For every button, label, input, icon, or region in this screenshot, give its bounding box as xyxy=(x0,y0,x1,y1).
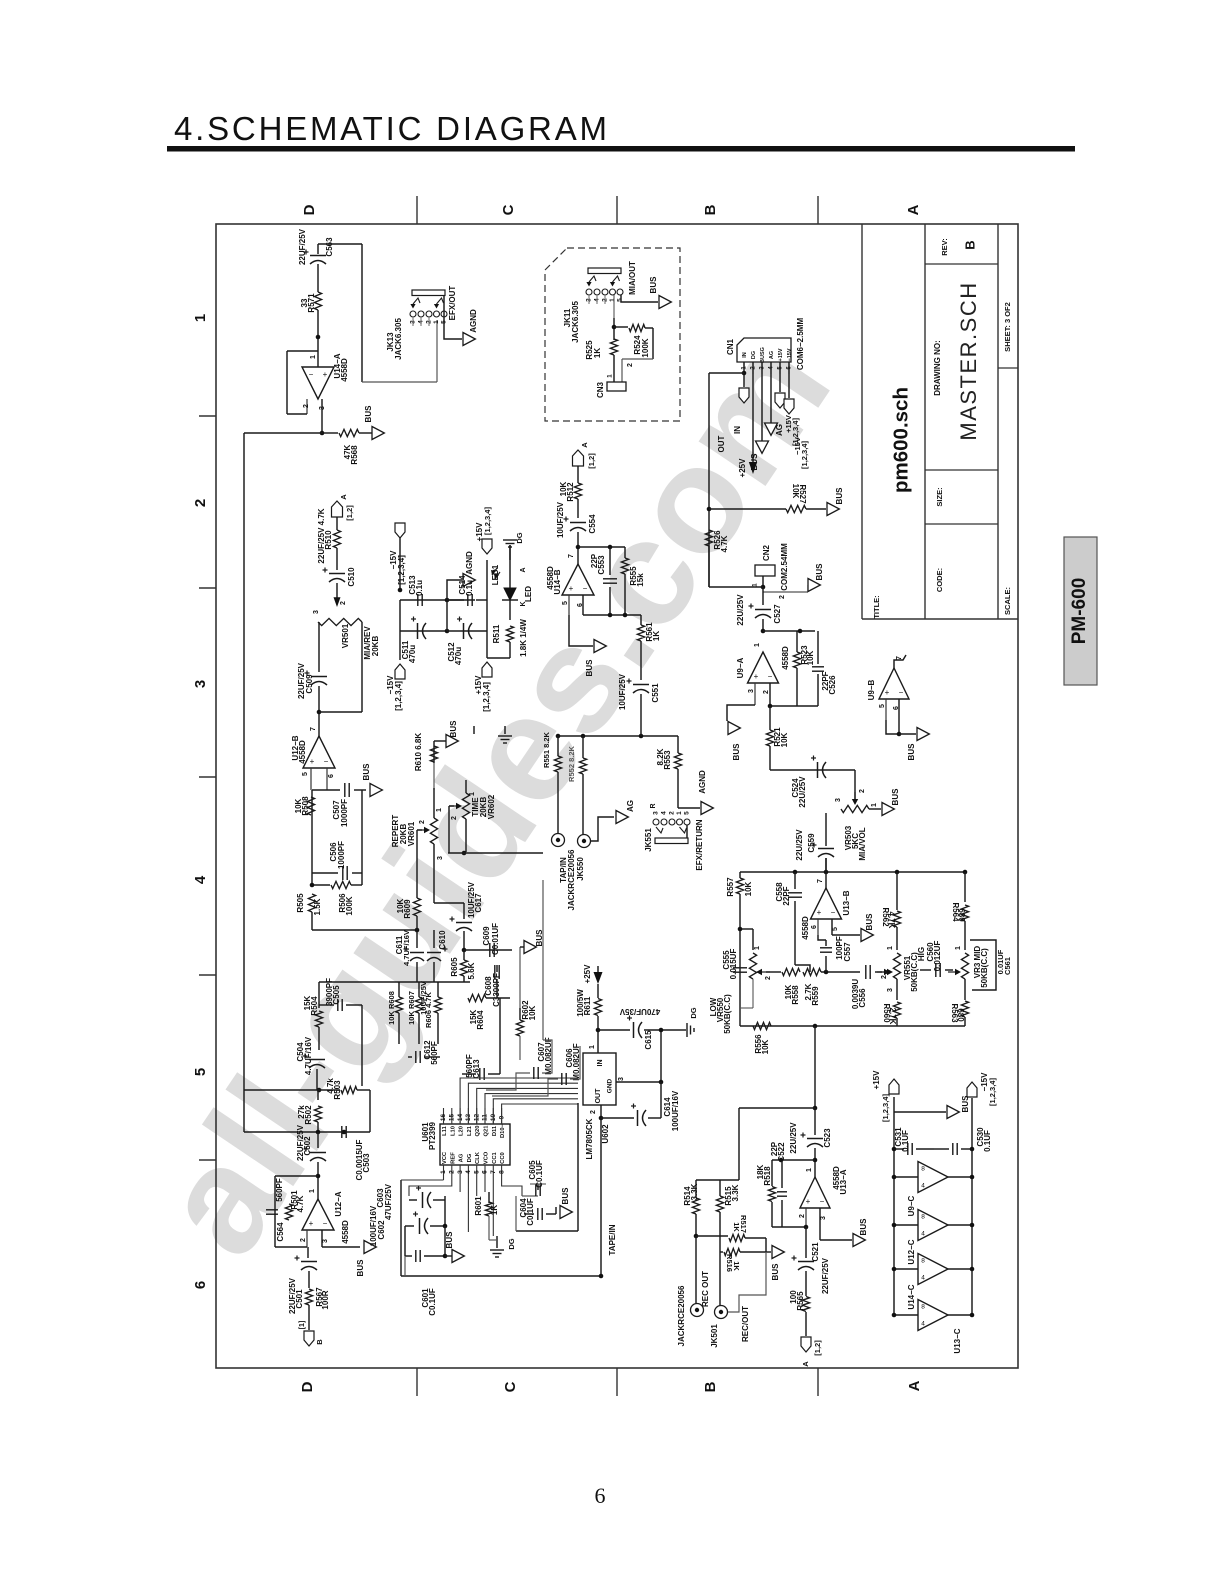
svg-text:3: 3 xyxy=(887,988,894,992)
svg-text:2: 2 xyxy=(340,601,347,605)
svg-text:[1,2,3,4]: [1,2,3,4] xyxy=(988,1078,997,1106)
svg-text:15: 15 xyxy=(449,1114,456,1122)
svg-text:C609: C609 xyxy=(482,926,491,946)
svg-text:R571: R571 xyxy=(307,293,316,313)
svg-text:LED: LED xyxy=(524,586,533,602)
svg-text:20KB: 20KB xyxy=(371,636,380,657)
svg-text:A: A xyxy=(580,442,589,448)
svg-text:+: + xyxy=(310,757,315,766)
svg-text:4.7K: 4.7K xyxy=(887,912,896,929)
svg-text:JK551: JK551 xyxy=(644,828,653,852)
svg-text:[1,2,3,4]: [1,2,3,4] xyxy=(800,441,809,469)
svg-text:C501: C501 xyxy=(295,1289,304,1309)
svg-text:U12−A: U12−A xyxy=(334,1191,343,1216)
svg-text:10K: 10K xyxy=(761,1039,770,1054)
svg-text:R605: R605 xyxy=(450,957,459,977)
svg-text:C610: C610 xyxy=(438,930,447,950)
svg-text:2: 2 xyxy=(765,976,772,980)
svg-text:1000PF: 1000PF xyxy=(340,799,349,827)
svg-text:4.7UF/16V: 4.7UF/16V xyxy=(402,930,411,966)
svg-text:3: 3 xyxy=(319,406,326,410)
svg-text:GND: GND xyxy=(607,1078,614,1093)
svg-text:C564: C564 xyxy=(276,1222,285,1242)
svg-text:SCALE:: SCALE: xyxy=(1003,587,1012,615)
svg-text:PM-600: PM-600 xyxy=(1069,578,1090,645)
svg-text:L20: L20 xyxy=(459,1126,465,1136)
svg-text:15k: 15k xyxy=(636,573,645,587)
svg-text:6: 6 xyxy=(328,774,335,778)
svg-text:REC OUT: REC OUT xyxy=(701,1271,710,1307)
svg-text:3: 3 xyxy=(192,680,209,688)
svg-text:R508: R508 xyxy=(301,796,310,816)
svg-text:0.1u: 0.1u xyxy=(465,580,474,596)
svg-text:CODE:: CODE: xyxy=(935,568,944,592)
svg-text:10UF/25V: 10UF/25V xyxy=(618,673,627,710)
svg-text:5: 5 xyxy=(684,811,691,815)
svg-text:A: A xyxy=(520,567,527,572)
svg-text:4.7K: 4.7K xyxy=(720,535,729,552)
svg-text:4: 4 xyxy=(661,811,668,815)
svg-text:5: 5 xyxy=(473,1170,480,1174)
svg-text:2: 2 xyxy=(419,820,426,824)
svg-text:1: 1 xyxy=(589,1045,596,1049)
svg-text:C522: C522 xyxy=(777,1142,786,1162)
svg-text:100UF/16V: 100UF/16V xyxy=(671,1090,680,1131)
svg-text:[1,2,3,4]: [1,2,3,4] xyxy=(397,555,406,585)
svg-text:6: 6 xyxy=(595,1483,606,1508)
svg-text:AG: AG xyxy=(626,800,635,812)
svg-text:2: 2 xyxy=(763,690,770,694)
svg-text:REV:: REV: xyxy=(940,238,949,256)
svg-text:BUS: BUS xyxy=(859,1218,868,1236)
svg-text:5: 5 xyxy=(302,772,309,776)
svg-text:1: 1 xyxy=(310,355,317,359)
svg-text:MASTER.SCH: MASTER.SCH xyxy=(956,281,981,440)
svg-text:1: 1 xyxy=(436,808,443,812)
svg-text:R512: R512 xyxy=(566,482,575,502)
svg-text:OUT: OUT xyxy=(595,1088,602,1104)
svg-text:1: 1 xyxy=(309,1189,316,1193)
svg-text:6: 6 xyxy=(577,603,584,607)
svg-text:4558D: 4558D xyxy=(340,358,349,382)
svg-text:BUS: BUS xyxy=(445,1231,454,1249)
svg-text:A: A xyxy=(339,494,348,500)
svg-text:R553: R553 xyxy=(663,750,672,770)
svg-text:EFX/OUT: EFX/OUT xyxy=(448,286,457,321)
svg-text:CN2: CN2 xyxy=(762,544,771,561)
svg-text:DG: DG xyxy=(689,1007,698,1018)
svg-text:R527: R527 xyxy=(798,484,807,504)
svg-text:1: 1 xyxy=(440,1170,447,1174)
svg-text:L10: L10 xyxy=(450,1126,456,1136)
svg-text:4: 4 xyxy=(192,875,209,884)
svg-text:BUS: BUS xyxy=(891,788,900,806)
svg-text:U602: U602 xyxy=(601,1124,610,1144)
svg-text:22PF: 22PF xyxy=(782,886,791,905)
svg-text:4: 4 xyxy=(921,1321,925,1328)
svg-text:C: C xyxy=(502,1381,519,1392)
svg-text:560PF: 560PF xyxy=(275,1178,284,1202)
svg-text:−: − xyxy=(831,908,836,917)
svg-text:4558D: 4558D xyxy=(801,916,810,940)
svg-text:MIA/OUT: MIA/OUT xyxy=(628,261,637,295)
svg-text:10K: 10K xyxy=(744,881,753,896)
svg-text:1: 1 xyxy=(871,803,878,807)
svg-text:−15V: −15V xyxy=(787,348,793,361)
svg-text:2: 2 xyxy=(669,811,676,815)
svg-text:7: 7 xyxy=(310,727,317,731)
svg-text:R505: R505 xyxy=(296,893,305,913)
svg-text:R517: R517 xyxy=(739,1215,748,1233)
svg-text:+15V: +15V xyxy=(778,348,784,361)
svg-text:[1,2]: [1,2] xyxy=(587,453,596,469)
svg-text:5: 5 xyxy=(192,1068,209,1076)
svg-text:C0.1UF: C0.1UF xyxy=(535,1160,544,1188)
svg-text:[1,2,3,4]: [1,2,3,4] xyxy=(394,681,403,711)
svg-text:C557: C557 xyxy=(843,942,852,962)
svg-text:8: 8 xyxy=(921,1214,925,1221)
svg-text:3: 3 xyxy=(322,1239,329,1243)
svg-text:1.5K: 1.5K xyxy=(313,898,322,915)
svg-text:2.7K: 2.7K xyxy=(888,1008,897,1025)
svg-text:REF: REF xyxy=(450,1152,456,1164)
svg-text:2: 2 xyxy=(881,975,888,979)
svg-text:6: 6 xyxy=(192,1281,209,1289)
svg-text:R502: R502 xyxy=(304,1105,313,1125)
svg-text:JK501: JK501 xyxy=(710,1324,719,1348)
svg-text:C556: C556 xyxy=(858,988,867,1008)
svg-text:+: + xyxy=(569,584,574,593)
svg-text:8: 8 xyxy=(921,1258,925,1265)
svg-text:DG: DG xyxy=(507,1238,516,1249)
svg-text:DRAWING NO:: DRAWING NO: xyxy=(933,340,942,396)
svg-text:C526: C526 xyxy=(828,675,837,695)
svg-text:OUT: OUT xyxy=(717,435,726,452)
svg-text:U14−C: U14−C xyxy=(907,1284,916,1309)
svg-text:B: B xyxy=(702,204,719,215)
svg-text:5: 5 xyxy=(832,927,839,931)
svg-text:1K: 1K xyxy=(652,631,661,641)
svg-text:B: B xyxy=(962,240,977,249)
svg-text:L11: L11 xyxy=(442,1125,448,1135)
svg-text:10K R607: 10K R607 xyxy=(407,991,416,1025)
svg-text:BUS: BUS xyxy=(449,720,458,738)
svg-text:AGND: AGND xyxy=(469,309,478,333)
svg-text:CC0: CC0 xyxy=(500,1152,506,1164)
svg-text:+25V: +25V xyxy=(738,458,747,478)
svg-text:AG: AG xyxy=(459,1153,465,1162)
svg-text:C: C xyxy=(500,204,517,215)
svg-text:−: − xyxy=(309,370,314,379)
svg-text:+: + xyxy=(309,1219,314,1228)
svg-text:1: 1 xyxy=(192,314,209,322)
svg-text:10K R608: 10K R608 xyxy=(387,991,396,1025)
svg-text:TAPE/IN: TAPE/IN xyxy=(608,1224,617,1255)
svg-text:5: 5 xyxy=(879,704,886,708)
svg-text:A: A xyxy=(906,1380,923,1391)
svg-text:560PF: 560PF xyxy=(430,1041,439,1065)
svg-text:5: 5 xyxy=(617,298,624,302)
svg-text:BUS: BUS xyxy=(835,487,844,505)
svg-text:HIG: HIG xyxy=(917,947,926,961)
svg-text:7: 7 xyxy=(568,554,575,558)
svg-text:BUS: BUS xyxy=(364,405,373,423)
svg-text:470u: 470u xyxy=(408,645,417,663)
svg-text:JACKRCE20056: JACKRCE20056 xyxy=(567,849,576,910)
svg-text:22U/25V: 22U/25V xyxy=(736,594,745,626)
svg-text:C505: C505 xyxy=(332,985,341,1005)
svg-text:7: 7 xyxy=(490,1170,497,1174)
svg-text:D: D xyxy=(301,204,318,215)
svg-text:10K: 10K xyxy=(528,1005,537,1020)
svg-text:BUS: BUS xyxy=(750,453,759,471)
svg-text:AGND: AGND xyxy=(698,770,707,794)
svg-text:2: 2 xyxy=(859,789,866,793)
svg-text:LM7805CK: LM7805CK xyxy=(585,1118,594,1159)
svg-text:2: 2 xyxy=(192,499,209,507)
svg-text:C613: C613 xyxy=(472,1059,481,1079)
svg-text:2: 2 xyxy=(303,404,310,408)
svg-text:50KB(C.C): 50KB(C.C) xyxy=(980,948,989,988)
svg-text:SHEET: 3 OF2: SHEET: 3 OF2 xyxy=(1003,302,1012,352)
svg-text:1: 1 xyxy=(676,811,683,815)
svg-text:[1,2,3,4]: [1,2,3,4] xyxy=(483,507,492,535)
svg-text:0.012UF: 0.012UF xyxy=(933,941,942,972)
svg-text:BUS: BUS xyxy=(561,1187,570,1205)
svg-text:C615: C615 xyxy=(644,1030,653,1050)
svg-text:0.1UF: 0.1UF xyxy=(901,1130,910,1152)
svg-text:4.SCHEMATIC DIAGRAM: 4.SCHEMATIC DIAGRAM xyxy=(174,110,610,147)
svg-text:22UF/25V: 22UF/25V xyxy=(821,1257,830,1294)
svg-text:COM6−2.5MM: COM6−2.5MM xyxy=(796,318,805,371)
svg-text:3: 3 xyxy=(457,1170,464,1174)
svg-text:4: 4 xyxy=(921,1231,925,1238)
svg-text:A: A xyxy=(801,1361,810,1367)
svg-text:AG: AG xyxy=(769,351,775,359)
svg-text:C561: C561 xyxy=(1003,957,1012,975)
svg-text:0.1u: 0.1u xyxy=(415,580,424,596)
svg-text:BUS: BUS xyxy=(771,1263,780,1281)
svg-text:VR501: VR501 xyxy=(341,623,350,648)
svg-text:DG: DG xyxy=(467,1153,473,1162)
svg-text:50KB(C.C): 50KB(C.C) xyxy=(723,994,732,1034)
svg-text:VCO: VCO xyxy=(484,1151,490,1164)
svg-text:JACK6.305: JACK6.305 xyxy=(571,301,580,343)
svg-text:0.1UF: 0.1UF xyxy=(983,1130,992,1152)
svg-text:R504: R504 xyxy=(310,996,319,1016)
svg-text:R557: R557 xyxy=(726,877,735,897)
svg-text:680: 680 xyxy=(956,1008,965,1022)
svg-text:10UF/25V: 10UF/25V xyxy=(556,501,565,538)
svg-text:1: 1 xyxy=(433,320,440,324)
svg-text:AG: AG xyxy=(775,424,784,436)
svg-text:10K: 10K xyxy=(780,732,789,747)
svg-text:3: 3 xyxy=(748,689,755,693)
svg-text:R604: R604 xyxy=(476,1010,485,1030)
svg-text:[1,2,3,4]: [1,2,3,4] xyxy=(482,682,491,712)
svg-text:4558D: 4558D xyxy=(298,740,307,764)
svg-text:R511: R511 xyxy=(492,624,501,643)
svg-text:R610 6.8K: R610 6.8K xyxy=(414,733,423,771)
svg-text:100K: 100K xyxy=(345,896,354,915)
svg-text:+15V: +15V xyxy=(872,1070,881,1090)
svg-text:22U/25V: 22U/25V xyxy=(795,829,804,861)
svg-text:7: 7 xyxy=(896,656,903,660)
svg-text:C523: C523 xyxy=(823,1128,832,1148)
svg-text:COM2.54MM: COM2.54MM xyxy=(780,543,789,591)
svg-text:BUS: BUS xyxy=(815,563,824,581)
svg-text:DG: DG xyxy=(515,532,524,543)
svg-text:JK550: JK550 xyxy=(576,857,585,881)
svg-text:CN3: CN3 xyxy=(596,381,605,398)
svg-text:3.3K: 3.3K xyxy=(690,1183,699,1200)
svg-text:C559: C559 xyxy=(807,833,816,853)
svg-text:470u: 470u xyxy=(454,647,463,665)
svg-text:L21: L21 xyxy=(467,1125,473,1136)
svg-text:D11: D11 xyxy=(492,1125,498,1136)
svg-text:3: 3 xyxy=(618,1077,625,1081)
svg-text:C0.01UF: C0.01UF xyxy=(491,923,500,955)
svg-text:7: 7 xyxy=(817,879,824,883)
svg-text:C0.1UF: C0.1UF xyxy=(428,1288,437,1316)
svg-text:SIZE:: SIZE: xyxy=(935,487,944,506)
svg-text:JACK6.305: JACK6.305 xyxy=(394,318,403,360)
svg-text:BUS: BUS xyxy=(732,743,741,761)
svg-text:6: 6 xyxy=(482,1170,489,1174)
svg-text:R611: R611 xyxy=(583,996,592,1015)
svg-text:TITLE:: TITLE: xyxy=(872,595,881,618)
svg-text:+: + xyxy=(817,908,822,917)
svg-text:BUS: BUS xyxy=(907,743,916,761)
svg-text:C553: C553 xyxy=(597,555,606,575)
svg-text:6: 6 xyxy=(893,706,900,710)
svg-text:22U/25V: 22U/25V xyxy=(789,1122,798,1154)
svg-text:C509: C509 xyxy=(305,674,314,694)
svg-text:−: − xyxy=(899,688,904,697)
svg-text:3: 3 xyxy=(835,798,842,802)
svg-text:R559: R559 xyxy=(811,986,820,1006)
svg-text:B: B xyxy=(702,1381,719,1392)
svg-text:+: + xyxy=(806,1197,811,1206)
svg-text:JACKRCE20056: JACKRCE20056 xyxy=(677,1285,686,1346)
svg-text:1: 1 xyxy=(609,298,616,302)
svg-text:4.7UF/16V: 4.7UF/16V xyxy=(304,1036,313,1075)
svg-text:C554: C554 xyxy=(588,514,597,534)
svg-text:22U/25V: 22U/25V xyxy=(798,776,807,808)
svg-text:2: 2 xyxy=(449,1170,456,1174)
svg-text:1: 1 xyxy=(607,374,614,378)
svg-text:2: 2 xyxy=(451,816,458,820)
svg-text:1K: 1K xyxy=(732,1261,741,1271)
svg-text:R552 8.2K: R552 8.2K xyxy=(567,745,576,781)
svg-text:C521: C521 xyxy=(811,1242,820,1262)
svg-text:+25V: +25V xyxy=(583,964,592,984)
svg-text:R609: R609 xyxy=(403,899,412,919)
svg-text:8: 8 xyxy=(498,1170,505,1174)
svg-text:U9−C: U9−C xyxy=(907,1195,916,1216)
svg-text:BUSG: BUSG xyxy=(760,347,766,363)
svg-text:−: − xyxy=(323,1219,328,1228)
svg-text:2: 2 xyxy=(627,363,634,367)
svg-text:[1,2]: [1,2] xyxy=(813,1340,822,1356)
svg-text:B: B xyxy=(315,1339,324,1345)
svg-text:1: 1 xyxy=(754,643,761,647)
svg-text:1: 1 xyxy=(806,1168,813,1172)
svg-text:IN: IN xyxy=(742,352,748,358)
svg-text:PT2399: PT2399 xyxy=(428,1121,437,1150)
svg-text:BUS: BUS xyxy=(585,659,594,677)
svg-text:6: 6 xyxy=(811,925,818,929)
svg-text:2: 2 xyxy=(779,595,786,599)
svg-text:R558: R558 xyxy=(791,985,800,1005)
svg-text:4: 4 xyxy=(465,1170,472,1174)
svg-text:1: 1 xyxy=(754,946,761,950)
svg-text:1: 1 xyxy=(887,946,894,950)
svg-text:+: + xyxy=(885,688,890,697)
svg-text:U9−B: U9−B xyxy=(867,679,876,700)
svg-text:C551: C551 xyxy=(651,683,660,703)
svg-text:3: 3 xyxy=(820,1216,827,1220)
svg-text:+: + xyxy=(323,370,328,379)
svg-text:2: 2 xyxy=(799,1214,806,1218)
svg-text:C602: C602 xyxy=(377,1220,386,1240)
svg-text:C563: C563 xyxy=(325,237,334,257)
svg-text:4558D: 4558D xyxy=(781,646,790,670)
svg-text:0.015UF: 0.015UF xyxy=(729,949,738,980)
svg-text:U14−B: U14−B xyxy=(553,569,562,594)
svg-text:R565: R565 xyxy=(796,1291,805,1311)
svg-text:pm600.sch: pm600.sch xyxy=(889,387,912,493)
svg-text:8: 8 xyxy=(921,1304,925,1311)
svg-text:IN: IN xyxy=(733,426,742,434)
svg-text:8: 8 xyxy=(921,1166,925,1173)
svg-text:BUS: BUS xyxy=(362,763,371,781)
svg-text:22UF/25V: 22UF/25V xyxy=(298,228,307,265)
svg-text:U13−A: U13−A xyxy=(839,1169,848,1194)
svg-text:10UF/25V: 10UF/25V xyxy=(419,981,428,1015)
svg-text:BUS: BUS xyxy=(961,1095,970,1113)
svg-text:R601: R601 xyxy=(474,1196,483,1216)
svg-text:A: A xyxy=(905,204,922,215)
svg-text:R518: R518 xyxy=(763,1166,772,1186)
svg-text:R551 8.2K: R551 8.2K xyxy=(542,731,551,767)
svg-text:CC1: CC1 xyxy=(492,1151,498,1163)
svg-text:1K: 1K xyxy=(490,1205,499,1215)
svg-text:2: 2 xyxy=(590,1110,597,1114)
svg-text:CLK: CLK xyxy=(475,1151,481,1164)
svg-text:R: R xyxy=(650,803,657,808)
svg-text:CN1: CN1 xyxy=(726,338,735,355)
svg-text:VR601: VR601 xyxy=(407,821,416,846)
svg-text:1: 1 xyxy=(955,946,962,950)
svg-text:D: D xyxy=(299,1381,316,1392)
svg-text:4558D: 4558D xyxy=(341,1220,350,1244)
svg-text:BUS: BUS xyxy=(356,1259,365,1277)
svg-text:3: 3 xyxy=(653,811,660,815)
svg-text:VCC: VCC xyxy=(442,1151,448,1164)
svg-text:U13−C: U13−C xyxy=(953,1328,962,1353)
svg-text:EFX/RETURN: EFX/RETURN xyxy=(695,819,704,870)
svg-text:C510: C510 xyxy=(347,567,356,587)
svg-text:1K: 1K xyxy=(593,348,602,358)
svg-text:4: 4 xyxy=(921,1183,925,1190)
svg-text:5: 5 xyxy=(562,601,569,605)
svg-text:[1]: [1] xyxy=(299,1321,306,1330)
svg-text:R510: R510 xyxy=(324,530,333,550)
svg-text:3: 3 xyxy=(313,610,320,614)
svg-text:5.6K: 5.6K xyxy=(467,962,476,979)
svg-text:1000PF: 1000PF xyxy=(337,841,346,869)
